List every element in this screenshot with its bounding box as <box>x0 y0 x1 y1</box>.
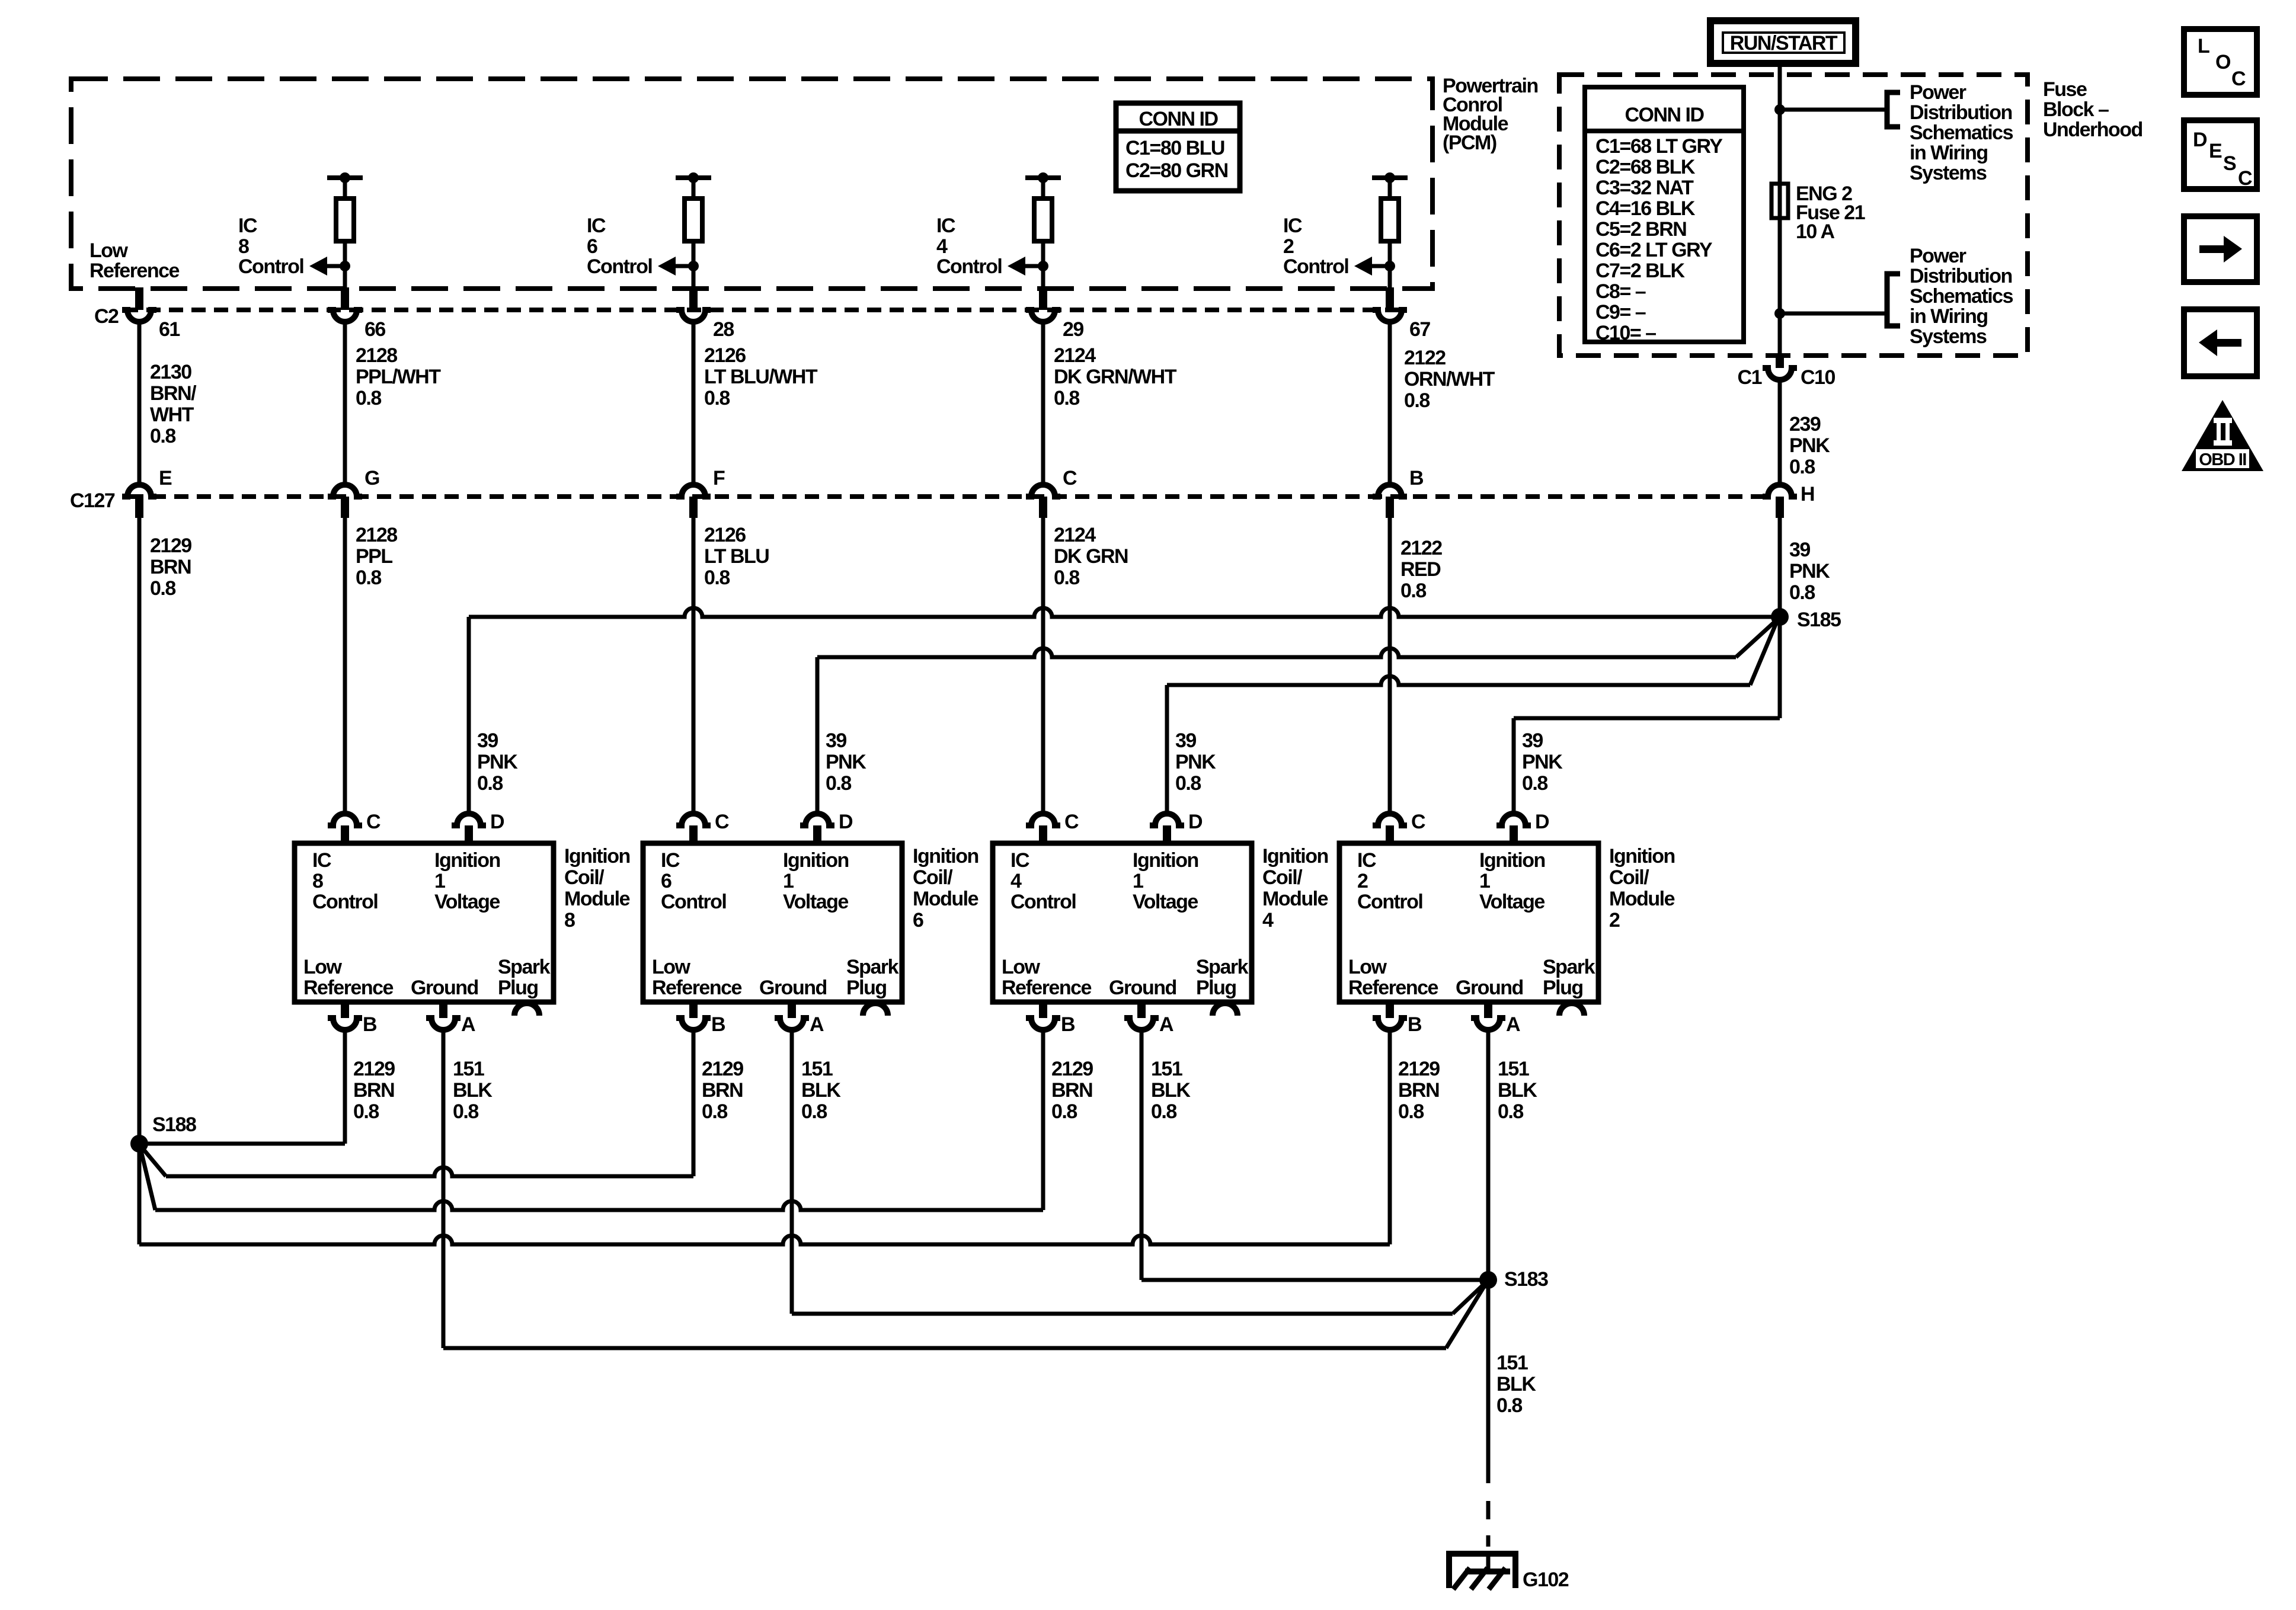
svg-text:E: E <box>2209 140 2222 162</box>
svg-text:B: B <box>363 1013 377 1036</box>
svg-text:C1=80 BLU: C1=80 BLU <box>1125 137 1224 159</box>
svg-text:Low: Low <box>1348 956 1387 978</box>
svg-text:0.8: 0.8 <box>1789 456 1815 478</box>
svg-text:2126: 2126 <box>704 524 746 546</box>
svg-text:PPL/WHT: PPL/WHT <box>356 366 441 388</box>
svg-text:4: 4 <box>1262 909 1274 932</box>
svg-text:Power: Power <box>1910 81 1966 104</box>
svg-text:2122: 2122 <box>1404 347 1446 369</box>
svg-text:A: A <box>1506 1013 1520 1036</box>
svg-text:BLK: BLK <box>453 1079 493 1102</box>
svg-text:39: 39 <box>1175 729 1196 752</box>
svg-text:C3=32 NAT: C3=32 NAT <box>1595 177 1694 199</box>
svg-text:BRN: BRN <box>702 1079 743 1102</box>
svg-text:6: 6 <box>661 870 671 892</box>
svg-text:Ground: Ground <box>411 977 478 999</box>
svg-text:0.8: 0.8 <box>356 387 381 409</box>
svg-text:D: D <box>1188 811 1203 833</box>
svg-text:C2=68 BLK: C2=68 BLK <box>1595 156 1696 178</box>
svg-text:G102: G102 <box>1523 1569 1569 1591</box>
svg-text:PNK: PNK <box>1789 560 1830 582</box>
svg-text:Control: Control <box>238 255 303 278</box>
svg-text:Spark: Spark <box>1196 956 1249 978</box>
svg-text:CONN ID: CONN ID <box>1139 108 1218 130</box>
svg-text:Ground: Ground <box>1109 977 1176 999</box>
svg-text:BRN/: BRN/ <box>150 382 197 405</box>
svg-text:28: 28 <box>713 318 734 341</box>
svg-text:1: 1 <box>1133 870 1143 892</box>
svg-text:C: C <box>1411 811 1425 833</box>
svg-text:2124: 2124 <box>1054 524 1096 546</box>
svg-text:Ignition: Ignition <box>1133 849 1198 872</box>
svg-text:(PCM): (PCM) <box>1443 132 1496 154</box>
svg-text:Voltage: Voltage <box>1133 891 1198 913</box>
svg-text:0.8: 0.8 <box>826 772 851 795</box>
svg-text:BLK: BLK <box>1496 1373 1536 1395</box>
svg-text:1: 1 <box>434 870 445 892</box>
svg-text:DK GRN/WHT: DK GRN/WHT <box>1054 366 1177 388</box>
svg-text:D: D <box>1535 811 1549 833</box>
svg-text:Low: Low <box>303 956 343 978</box>
svg-text:2128: 2128 <box>356 524 397 546</box>
svg-text:Spark: Spark <box>846 956 899 978</box>
svg-text:Ignition: Ignition <box>783 849 849 872</box>
svg-text:Module: Module <box>913 888 978 910</box>
svg-text:E: E <box>159 467 172 489</box>
svg-text:151: 151 <box>1498 1058 1529 1080</box>
svg-text:BLK: BLK <box>801 1079 841 1102</box>
svg-text:0.8: 0.8 <box>704 566 730 589</box>
svg-text:0.8: 0.8 <box>1498 1100 1523 1123</box>
svg-text:0.8: 0.8 <box>801 1100 827 1123</box>
svg-text:BRN: BRN <box>1051 1079 1092 1102</box>
svg-text:PNK: PNK <box>1789 434 1830 457</box>
svg-text:10 A: 10 A <box>1796 220 1835 243</box>
svg-text:151: 151 <box>1151 1058 1182 1080</box>
svg-text:Control: Control <box>587 255 652 278</box>
svg-text:IC: IC <box>1011 849 1029 872</box>
svg-text:Plug: Plug <box>1196 977 1236 999</box>
svg-text:Ground: Ground <box>1456 977 1523 999</box>
svg-text:Ignition: Ignition <box>434 849 500 872</box>
svg-text:Plug: Plug <box>846 977 887 999</box>
svg-text:PNK: PNK <box>826 751 866 773</box>
svg-text:Low: Low <box>89 239 129 262</box>
svg-text:Coil/: Coil/ <box>564 866 605 889</box>
svg-text:Module: Module <box>564 888 630 910</box>
svg-text:C127: C127 <box>70 489 115 512</box>
svg-text:Plug: Plug <box>1543 977 1583 999</box>
svg-text:Ignition: Ignition <box>1262 845 1328 868</box>
svg-text:0.8: 0.8 <box>150 577 175 600</box>
svg-text:0.8: 0.8 <box>453 1100 478 1123</box>
svg-text:PPL: PPL <box>356 545 392 568</box>
svg-text:8: 8 <box>312 870 323 892</box>
svg-text:29: 29 <box>1063 318 1083 341</box>
svg-text:0.8: 0.8 <box>356 566 381 589</box>
svg-text:B: B <box>1061 1013 1075 1036</box>
svg-text:2: 2 <box>1283 235 1294 258</box>
svg-text:6: 6 <box>913 909 923 932</box>
svg-text:S188: S188 <box>152 1113 196 1136</box>
svg-text:B: B <box>711 1013 725 1036</box>
svg-text:C: C <box>366 811 380 833</box>
svg-text:Schematics: Schematics <box>1910 285 2013 308</box>
svg-text:Power: Power <box>1910 245 1966 267</box>
svg-text:C6=2 LT GRY: C6=2 LT GRY <box>1595 239 1713 261</box>
svg-text:Control: Control <box>1011 891 1076 913</box>
svg-text:H: H <box>1801 483 1814 505</box>
svg-text:Ignition: Ignition <box>1609 845 1675 868</box>
svg-text:Systems: Systems <box>1910 162 1987 184</box>
svg-text:Ignition: Ignition <box>913 845 978 868</box>
svg-text:39: 39 <box>477 729 498 752</box>
svg-text:C10: C10 <box>1801 366 1835 389</box>
svg-text:39: 39 <box>1789 539 1810 561</box>
svg-text:Coil/: Coil/ <box>913 866 953 889</box>
svg-text:LT BLU/WHT: LT BLU/WHT <box>704 366 818 388</box>
svg-text:2130: 2130 <box>150 361 191 383</box>
svg-text:DK GRN: DK GRN <box>1054 545 1128 568</box>
svg-text:0.8: 0.8 <box>1151 1100 1176 1123</box>
svg-text:C: C <box>2238 167 2252 190</box>
svg-text:C5=2 BRN: C5=2 BRN <box>1595 218 1686 241</box>
svg-text:BRN: BRN <box>1398 1079 1439 1102</box>
svg-text:D: D <box>2193 129 2207 151</box>
svg-text:39: 39 <box>826 729 846 752</box>
svg-text:F: F <box>713 467 725 489</box>
svg-text:S183: S183 <box>1504 1268 1548 1291</box>
svg-text:IC: IC <box>1357 849 1376 872</box>
svg-text:C: C <box>1063 467 1077 489</box>
svg-text:4: 4 <box>1011 870 1022 892</box>
svg-text:Voltage: Voltage <box>1479 891 1544 913</box>
svg-text:WHT: WHT <box>150 404 194 426</box>
svg-text:C: C <box>1064 811 1079 833</box>
svg-text:C4=16 BLK: C4=16 BLK <box>1595 197 1696 220</box>
svg-text:8: 8 <box>564 909 575 932</box>
svg-text:IC: IC <box>661 849 680 872</box>
svg-text:RUN/START: RUN/START <box>1730 32 1838 55</box>
svg-text:0.8: 0.8 <box>477 772 503 795</box>
svg-text:Control: Control <box>936 255 1002 278</box>
svg-text:CONN ID: CONN ID <box>1625 104 1704 126</box>
svg-text:Reference: Reference <box>303 977 394 999</box>
svg-text:151: 151 <box>801 1058 833 1080</box>
svg-text:0.8: 0.8 <box>150 425 175 447</box>
svg-text:0.8: 0.8 <box>702 1100 727 1123</box>
svg-text:C1=68 LT GRY: C1=68 LT GRY <box>1595 135 1723 158</box>
svg-text:OBD II: OBD II <box>2199 450 2246 469</box>
svg-text:0.8: 0.8 <box>1404 389 1430 412</box>
svg-text:IC: IC <box>312 849 331 872</box>
svg-text:Coil/: Coil/ <box>1609 866 1649 889</box>
svg-text:S185: S185 <box>1797 609 1841 631</box>
svg-text:2128: 2128 <box>356 344 397 367</box>
svg-text:Underhood: Underhood <box>2043 119 2142 141</box>
svg-text:66: 66 <box>364 318 385 341</box>
svg-text:2124: 2124 <box>1054 344 1096 367</box>
svg-text:IC: IC <box>587 215 606 237</box>
svg-text:2: 2 <box>1609 909 1620 932</box>
svg-text:0.8: 0.8 <box>1054 566 1079 589</box>
svg-text:Spark: Spark <box>498 956 551 978</box>
svg-text:C2: C2 <box>94 305 119 328</box>
svg-text:6: 6 <box>587 235 597 258</box>
svg-text:Ignition: Ignition <box>1479 849 1545 872</box>
svg-text:2129: 2129 <box>1398 1058 1440 1080</box>
svg-text:2129: 2129 <box>1051 1058 1093 1080</box>
svg-text:151: 151 <box>453 1058 484 1080</box>
svg-text:LT BLU: LT BLU <box>704 545 769 568</box>
svg-text:BLK: BLK <box>1498 1079 1537 1102</box>
svg-text:Control: Control <box>661 891 726 913</box>
svg-text:A: A <box>810 1013 824 1036</box>
svg-text:0.8: 0.8 <box>1400 580 1426 602</box>
svg-text:Systems: Systems <box>1910 325 1987 348</box>
svg-text:Reference: Reference <box>1348 977 1438 999</box>
svg-text:PNK: PNK <box>1522 751 1563 773</box>
svg-text:61: 61 <box>159 318 180 341</box>
svg-text:Voltage: Voltage <box>434 891 500 913</box>
svg-text:B: B <box>1409 467 1424 489</box>
svg-text:239: 239 <box>1789 413 1821 436</box>
svg-text:0.8: 0.8 <box>1398 1100 1424 1123</box>
svg-text:Distribution: Distribution <box>1910 265 2012 287</box>
svg-text:Control: Control <box>312 891 378 913</box>
svg-text:Low: Low <box>1002 956 1041 978</box>
svg-text:Plug: Plug <box>498 977 538 999</box>
svg-text:Reference: Reference <box>652 977 742 999</box>
svg-text:BLK: BLK <box>1151 1079 1191 1102</box>
svg-text:2129: 2129 <box>150 534 191 557</box>
svg-text:IC: IC <box>936 215 955 237</box>
svg-text:C8= –: C8= – <box>1595 280 1646 303</box>
svg-text:39: 39 <box>1522 729 1543 752</box>
svg-text:C: C <box>2231 68 2246 90</box>
svg-text:2: 2 <box>1357 870 1368 892</box>
svg-text:PNK: PNK <box>1175 751 1216 773</box>
svg-text:Reference: Reference <box>89 260 180 282</box>
svg-text:Control: Control <box>1357 891 1422 913</box>
svg-text:C7=2 BLK: C7=2 BLK <box>1595 260 1685 282</box>
svg-text:2122: 2122 <box>1400 537 1442 559</box>
svg-text:Schematics: Schematics <box>1910 121 2013 144</box>
svg-text:D: D <box>839 811 853 833</box>
svg-text:in Wiring: in Wiring <box>1910 142 1988 164</box>
svg-text:Block –: Block – <box>2043 98 2109 121</box>
svg-text:Voltage: Voltage <box>783 891 848 913</box>
svg-text:PNK: PNK <box>477 751 518 773</box>
svg-text:Module: Module <box>1609 888 1675 910</box>
svg-text:67: 67 <box>1409 318 1430 341</box>
svg-text:2126: 2126 <box>704 344 746 367</box>
svg-text:A: A <box>461 1013 475 1036</box>
svg-text:0.8: 0.8 <box>1051 1100 1077 1123</box>
svg-text:0.8: 0.8 <box>353 1100 379 1123</box>
svg-text:BRN: BRN <box>353 1079 394 1102</box>
svg-text:Ground: Ground <box>759 977 827 999</box>
svg-text:C1: C1 <box>1738 366 1762 389</box>
svg-text:L: L <box>2198 35 2209 57</box>
svg-text:RED: RED <box>1400 558 1441 581</box>
svg-text:ORN/WHT: ORN/WHT <box>1404 368 1495 391</box>
svg-text:Control: Control <box>1283 255 1348 278</box>
svg-text:S: S <box>2223 152 2236 175</box>
svg-text:1: 1 <box>1479 870 1490 892</box>
svg-text:1: 1 <box>783 870 794 892</box>
svg-text:0.8: 0.8 <box>1522 772 1547 795</box>
svg-text:in Wiring: in Wiring <box>1910 305 1988 328</box>
svg-text:C10= –: C10= – <box>1595 322 1656 344</box>
svg-text:A: A <box>1159 1013 1173 1036</box>
svg-text:B: B <box>1408 1013 1422 1036</box>
svg-text:Module: Module <box>1262 888 1328 910</box>
svg-text:0.8: 0.8 <box>1175 772 1201 795</box>
svg-text:2129: 2129 <box>353 1058 395 1080</box>
svg-text:0.8: 0.8 <box>1789 581 1815 604</box>
svg-text:D: D <box>490 811 504 833</box>
svg-text:2129: 2129 <box>702 1058 743 1080</box>
svg-text:Low: Low <box>652 956 691 978</box>
svg-text:BRN: BRN <box>150 556 191 578</box>
svg-text:C9= –: C9= – <box>1595 301 1646 324</box>
svg-text:0.8: 0.8 <box>1496 1394 1522 1417</box>
svg-text:Reference: Reference <box>1002 977 1092 999</box>
svg-text:151: 151 <box>1496 1352 1528 1374</box>
svg-text:O: O <box>2215 51 2231 73</box>
svg-text:IC: IC <box>1283 215 1302 237</box>
svg-text:C2=80 GRN: C2=80 GRN <box>1125 159 1228 182</box>
svg-text:8: 8 <box>238 235 249 258</box>
svg-text:4: 4 <box>936 235 948 258</box>
svg-text:Fuse: Fuse <box>2043 78 2087 101</box>
svg-text:Distribution: Distribution <box>1910 101 2012 124</box>
svg-text:C: C <box>715 811 729 833</box>
svg-text:Ignition: Ignition <box>564 845 630 868</box>
svg-text:0.8: 0.8 <box>1054 387 1079 409</box>
svg-text:Spark: Spark <box>1543 956 1595 978</box>
svg-text:G: G <box>364 467 379 489</box>
svg-text:0.8: 0.8 <box>704 387 730 409</box>
svg-text:IC: IC <box>238 215 257 237</box>
svg-text:Coil/: Coil/ <box>1262 866 1303 889</box>
